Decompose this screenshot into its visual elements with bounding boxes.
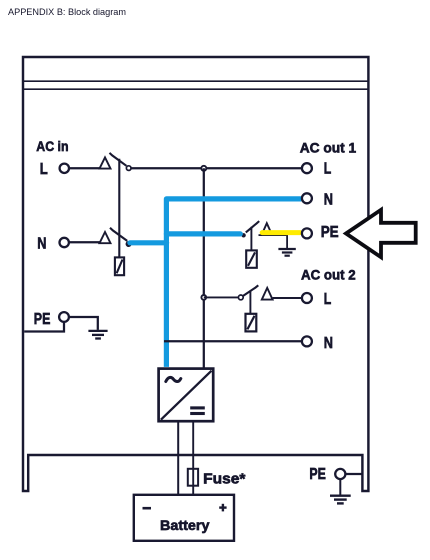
release fuse N in [115, 257, 124, 275]
wire L bus [131, 167, 302, 169]
converter diagonal [161, 371, 212, 420]
terminal PE out1 [302, 228, 312, 238]
svg-text:N: N [37, 236, 46, 253]
top band line 1 [23, 80, 368, 82]
svg-text:PE: PE [321, 224, 339, 241]
arrow callout [346, 210, 416, 257]
terminal N in [59, 238, 68, 247]
rod PE relay [250, 227, 252, 251]
wire N out2 [164, 340, 302, 342]
label minus [143, 507, 152, 510]
switch contact N in [126, 242, 130, 246]
switch contact L in [126, 166, 131, 171]
svg-text:APPENDIX B: Block diagram: APPENDIX B: Block diagram [8, 7, 126, 17]
terminal N out2 [302, 336, 312, 346]
wire L out2 from node [204, 296, 239, 298]
terminal PE in [59, 312, 69, 322]
wire L out2 to terminal [273, 297, 302, 299]
svg-text:N: N [324, 335, 333, 352]
switch blade N in [110, 228, 127, 241]
switch blade PE relay [246, 221, 259, 232]
triangle PE relay [262, 223, 271, 233]
release fuse PE relay [246, 250, 257, 267]
wire N in blue segment [130, 240, 167, 245]
wire PE to earth [69, 317, 98, 330]
fuse battery [188, 469, 198, 486]
svg-text:AC out 1: AC out 1 [300, 139, 357, 155]
svg-text:Battery: Battery [160, 517, 210, 533]
svg-text:PE: PE [309, 466, 326, 483]
svg-text:L: L [324, 291, 332, 308]
ground PE relay [278, 235, 295, 256]
wire L in to switch [69, 167, 110, 169]
wire yellow PE bond [262, 230, 300, 235]
svg-text:AC in: AC in [36, 139, 68, 154]
top band line 2 [23, 88, 368, 90]
rod L out2 [249, 290, 251, 313]
terminal N out1 [302, 193, 312, 203]
triangle L out2 [262, 288, 273, 300]
wire N blue bus [166, 199, 301, 367]
enclosure frame [23, 57, 368, 491]
svg-text:L: L [40, 161, 48, 178]
terminal L in [60, 164, 69, 173]
svg-text:Fuse*: Fuse* [203, 471, 246, 487]
converter box [159, 369, 214, 422]
ground PE in [88, 331, 107, 339]
svg-text:N: N [324, 191, 333, 208]
terminal L out2 [302, 293, 312, 303]
wire DC minus [177, 421, 179, 494]
svg-text:L: L [324, 160, 332, 177]
battery box [134, 495, 234, 541]
terminal PE bottom [335, 469, 345, 479]
node L out2 [201, 295, 206, 300]
switch blade L out2 [243, 285, 258, 296]
label plus [219, 504, 226, 512]
wire DC plus [192, 421, 194, 494]
converter DC equals [190, 408, 205, 414]
switch contact L out2 [238, 295, 243, 300]
converter AC tilde [166, 377, 181, 381]
triangle N in [100, 232, 111, 243]
wire L feed vertical [203, 168, 205, 368]
switch blade L in [110, 153, 127, 166]
wire PE chassis bond [24, 322, 64, 332]
svg-text:PE: PE [34, 311, 51, 328]
triangle L in [100, 157, 111, 168]
node L bus [201, 166, 206, 171]
release fuse L out2 [246, 314, 257, 332]
terminal L out1 [302, 163, 312, 173]
wire PE bottom to wall [346, 473, 363, 475]
wire N in to switch [69, 241, 110, 243]
switch contact N in blue end dot [126, 242, 130, 246]
wire PE relay to terminal [259, 234, 289, 236]
ground PE bottom [330, 479, 351, 503]
coupling rod switches [118, 159, 120, 258]
svg-text:AC out 2: AC out 2 [301, 267, 356, 283]
wire blue branch to PE relay [166, 231, 240, 236]
switch contact AC out 1 PE dot [241, 233, 245, 237]
